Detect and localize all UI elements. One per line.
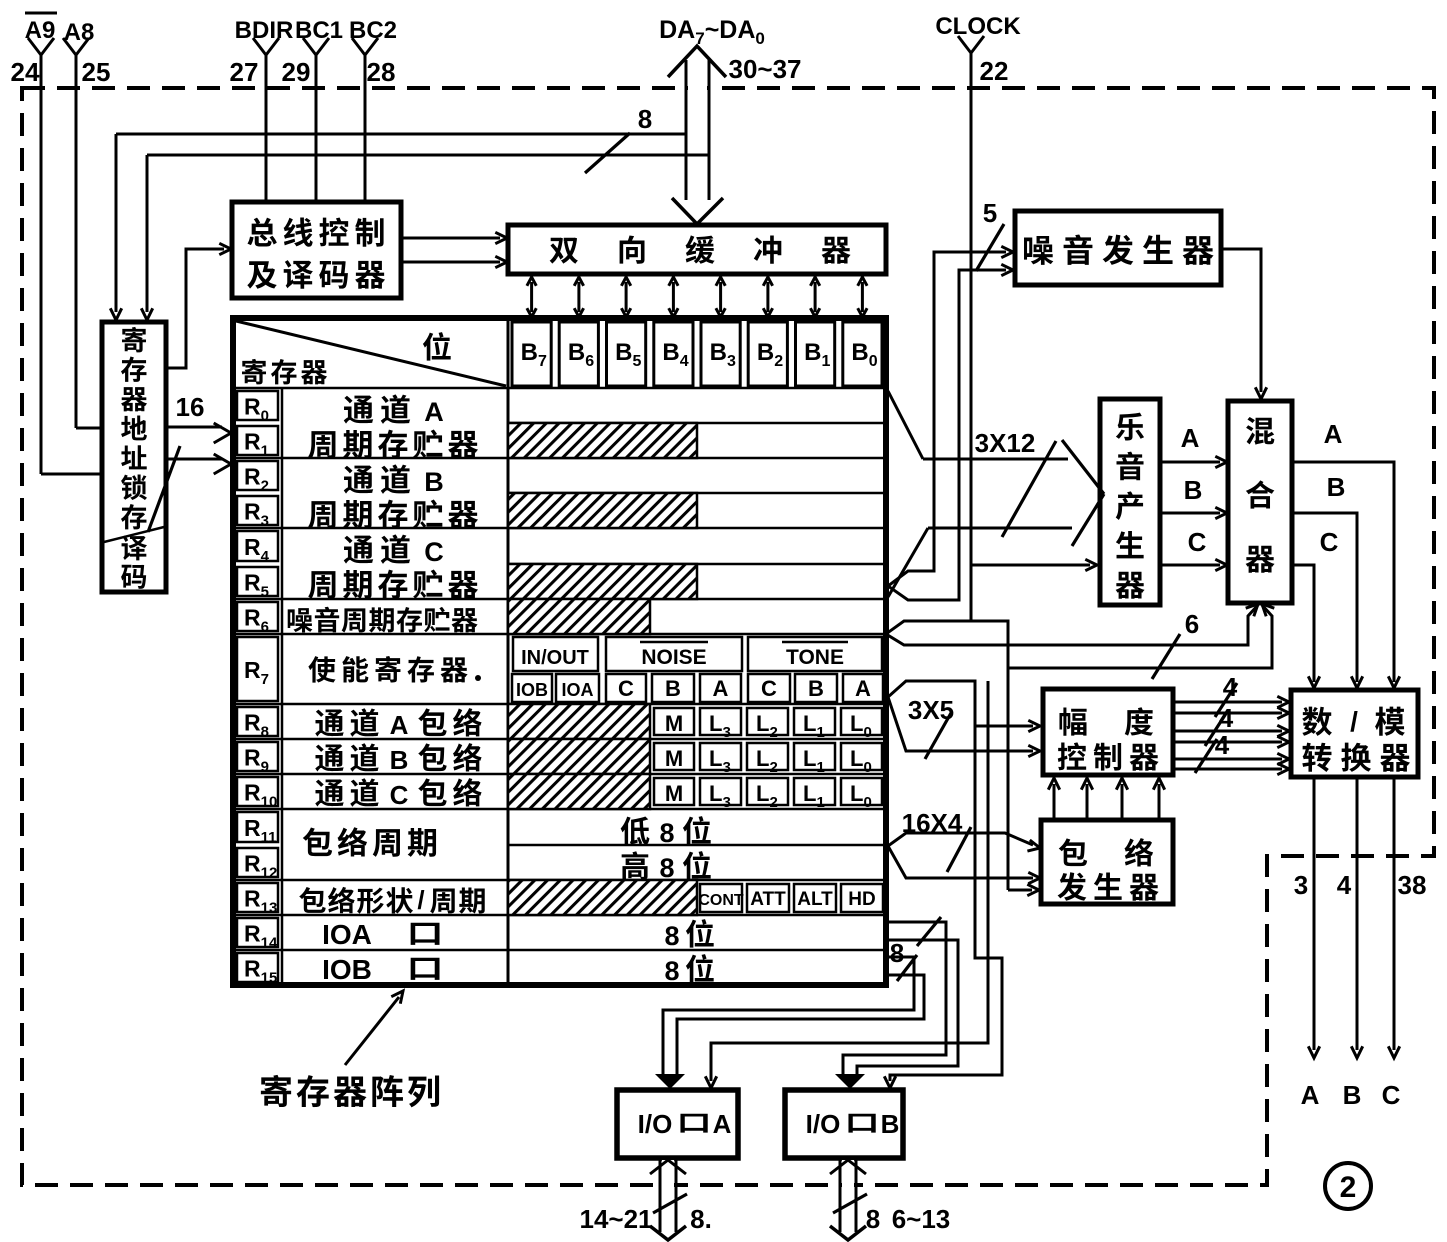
svg-text:25: 25: [82, 57, 111, 87]
svg-text:NOISE: NOISE: [641, 646, 706, 669]
svg-text:C: C: [1382, 1080, 1401, 1110]
R7 sub-cells bottom row IOB IOA C B A C B A: [512, 674, 883, 702]
bus width slash 16 on latch-to-table bus: [148, 392, 204, 532]
block U-buscontrol: bus control and decoder (total line control): [232, 202, 401, 298]
block U-envgen: envelope generator: [1041, 820, 1173, 904]
register description R15: IOB port: [322, 954, 439, 985]
pin bus I/O A (pins 14~21) hollow bidirectional arrow: [579, 1158, 711, 1240]
register description R9: channel B envelope: [315, 743, 481, 775]
svg-text:IN/OUT: IN/OUT: [521, 647, 589, 669]
pin BDIR (pin 27): [230, 17, 294, 204]
svg-text:B: B: [1343, 1080, 1362, 1110]
svg-text:ALT: ALT: [797, 889, 833, 910]
bus width slash 3X12: [975, 428, 1056, 537]
svg-text:M: M: [665, 781, 683, 806]
svg-text:8: 8: [638, 104, 652, 134]
bus R14 IOA register to I/O port B (8 bits): [835, 922, 958, 1089]
svg-text:16X4: 16X4: [902, 808, 963, 838]
vertical divider description/bits: [507, 318, 510, 985]
block U-latch: register address latch / decoder (vertical): [102, 322, 166, 592]
R7 sub-cells IN/OUT, NOISE(overline), TONE(overline) headers: [513, 637, 882, 671]
svg-text:A: A: [390, 710, 409, 740]
header label: register (ji cun qi): [242, 359, 266, 385]
wire clock/enable down to envelope generator: [1008, 668, 1039, 896]
svg-text:14~21: 14~21: [579, 1204, 652, 1234]
callout: register array label with arrow: [261, 991, 439, 1107]
svg-text:BC1: BC1: [295, 17, 343, 44]
svg-text:C: C: [424, 537, 444, 567]
bus 3X12 tone periods to tone generator (big funnel arrow): [888, 391, 1104, 597]
bus R15 IOB register to I/O port A (8 bits): [655, 957, 924, 1089]
wire CLOCK net: down, branch to tone generator, jog to envelope generator: [971, 53, 1097, 621]
R15 cell: 8 bits: [664, 954, 713, 986]
register description R6: noise period register: [288, 608, 313, 632]
block U-ioa: I/O port A: [617, 1090, 738, 1158]
bus width slash 8 on DA data lines: [585, 104, 652, 173]
bus width slash 5: [976, 198, 1004, 271]
wire mixer output C to DAC: [1292, 527, 1339, 688]
svg-text:8: 8: [659, 818, 674, 848]
svg-text:IOA: IOA: [322, 919, 372, 950]
svg-text:C: C: [618, 676, 634, 701]
svg-text:8: 8: [664, 921, 679, 951]
svg-text:A: A: [713, 676, 729, 701]
bus R8-R10 amplitudes to amplitude controller (3X5): [888, 681, 1040, 757]
hatched unused fields R1,R3,R5,R6,R8,R9,R10,R13: [508, 423, 697, 915]
pin CLOCK (pin 22): [935, 13, 1021, 86]
svg-text:IOB: IOB: [516, 680, 548, 700]
wire noise generator to mixer top: [1221, 249, 1267, 399]
svg-text:B: B: [881, 1109, 900, 1139]
bus 8 double-headed arrows buffer to register array bits: [527, 277, 867, 317]
wire DAC output A to pin 3: [1294, 777, 1320, 1110]
block U-tone: tone generator (vertical): [1100, 399, 1160, 605]
svg-text:2: 2: [1340, 1171, 1357, 1204]
register description R14: IOA port: [322, 919, 439, 950]
bus width slash (R15): [897, 955, 917, 981]
R8/R9/R10 amplitude cells M L3 L2 L1 L0: [654, 708, 882, 811]
svg-text:B: B: [808, 676, 824, 701]
horizontal grid lines full width: [235, 388, 884, 950]
register descriptions: channel A period register (R0/R1): [308, 394, 478, 459]
svg-text:8: 8: [664, 956, 679, 986]
block U-noise: noise generator: [1015, 211, 1221, 285]
bus amplitude controller to DAC lane 2 (4 bits): [1173, 703, 1289, 748]
svg-text:28: 28: [367, 57, 396, 87]
svg-text:4: 4: [1219, 703, 1234, 733]
wire DAC output B to pin 4: [1337, 777, 1363, 1110]
svg-text:22: 22: [980, 56, 1009, 86]
svg-text:A: A: [855, 676, 871, 701]
svg-text:M: M: [665, 746, 683, 771]
wire mixer output B to DAC: [1292, 472, 1363, 688]
register descriptions: channel C period register (R4/R5): [308, 534, 478, 599]
svg-text:M: M: [665, 711, 683, 736]
register description R13: envelope shape/period: [299, 885, 485, 915]
svg-text:ATT: ATT: [750, 889, 786, 910]
wires envelope generator to amplitude controller (4 arrows): [1048, 778, 1164, 818]
figure number 2 (circled): [1325, 1163, 1371, 1209]
wire tone B to mixer: [1160, 475, 1227, 519]
svg-text:CLOCK: CLOCK: [935, 13, 1021, 40]
wire enable IOB down to I/O port B: [884, 681, 1002, 1088]
svg-text:16: 16: [176, 392, 205, 422]
svg-text:6~13: 6~13: [892, 1204, 951, 1234]
wire tone C to mixer: [1160, 527, 1227, 571]
register description R11/R12: envelope period: [303, 827, 332, 856]
svg-text:B: B: [665, 676, 681, 701]
svg-text:A: A: [1301, 1080, 1320, 1110]
wire bus-control to buffer (upper arrow): [401, 232, 507, 243]
bus amplitude controller to DAC lane 1 (4 bits): [1173, 672, 1289, 719]
bit header cells B7..B0: [512, 322, 882, 386]
register description R7: enable register: [308, 656, 481, 683]
svg-text:4: 4: [1223, 672, 1238, 702]
block U-iob: I/O port B: [785, 1090, 903, 1158]
svg-text:A8: A8: [64, 19, 95, 46]
R14 cell: 8 bits: [664, 919, 713, 951]
pin bus I/O B (pins 6~13) hollow bidirectional arrow: [830, 1158, 950, 1240]
R12 cell: high 8 bits: [622, 851, 711, 883]
register array header diagonal divider: [236, 321, 506, 386]
svg-text:/: /: [1350, 706, 1358, 737]
svg-text:DA7~DA0: DA7~DA0: [659, 16, 765, 48]
svg-text:4: 4: [1337, 870, 1352, 900]
wire tone A to mixer: [1160, 423, 1227, 468]
register description R8: channel A envelope: [315, 708, 481, 740]
svg-text:TONE: TONE: [786, 646, 844, 669]
svg-text:C: C: [1188, 527, 1207, 557]
svg-text:BDIR: BDIR: [235, 17, 294, 44]
svg-text:B: B: [390, 745, 409, 775]
svg-text:3X5: 3X5: [908, 695, 954, 725]
svg-text:30~37: 30~37: [728, 54, 801, 84]
pin BC1 (pin 29): [282, 17, 343, 204]
pin BC2 (pin 28): [349, 17, 397, 204]
bus amplitude controller to DAC lane 3 (4 bits): [1173, 730, 1289, 775]
wire latch to bus-control with arrow: [166, 243, 231, 368]
svg-text:29: 29: [282, 57, 311, 87]
wire enable IOA down to I/O port A: [705, 681, 988, 1088]
svg-text:C: C: [1320, 527, 1339, 557]
svg-text:IOA: IOA: [561, 680, 593, 700]
register descriptions: channel B period register (R2/R3): [308, 464, 478, 529]
pin A9-bar (pin 24): [11, 13, 102, 474]
svg-text:38: 38: [1398, 870, 1427, 900]
svg-text:8.: 8.: [690, 1204, 712, 1234]
bus R7 enables to mixer bottom (6 lines): [886, 604, 1274, 668]
wire latch to table R1 with big arrow: [166, 454, 231, 474]
svg-text:8: 8: [866, 1204, 880, 1234]
svg-text:A: A: [1181, 423, 1200, 453]
bus width slash 3X5: [908, 695, 954, 759]
block U-ampctl: amplitude controller: [1043, 689, 1173, 775]
svg-text:C: C: [761, 676, 777, 701]
wire mixer output A to DAC: [1292, 419, 1400, 688]
wire bus-control to buffer (lower arrow): [401, 256, 507, 267]
R11 cell: low 8 bits: [621, 816, 711, 848]
wire data line DA to latch (upper): [110, 134, 686, 320]
svg-text:27: 27: [230, 57, 259, 87]
wire DAC output C to pin 38: [1382, 777, 1427, 1110]
block U-dac: D/A converter: [1291, 690, 1418, 777]
register description R10: channel C envelope: [315, 778, 481, 810]
svg-text:B: B: [1327, 472, 1346, 502]
svg-text:4: 4: [1215, 730, 1230, 760]
pin A8 (pin 25): [63, 19, 110, 428]
svg-text:A: A: [424, 397, 444, 427]
svg-text:I/O: I/O: [638, 1109, 673, 1139]
bus width slash 16X4: [902, 808, 971, 872]
svg-text:24: 24: [11, 57, 40, 87]
bus width slash 6: [1152, 609, 1199, 679]
pin bus DA7~DA0 (pins 30~37) bidirectional hollow arrow into buffer: [659, 16, 801, 224]
svg-text:A: A: [1324, 419, 1343, 449]
svg-text:3: 3: [1294, 870, 1308, 900]
svg-text:IOB: IOB: [322, 954, 372, 985]
horizontal grid lines bit-area only: [508, 423, 884, 845]
bus R6 noise period to noise generator (5 bits): [888, 246, 1013, 600]
svg-text:I/O: I/O: [806, 1109, 841, 1139]
svg-text:5: 5: [983, 198, 997, 228]
block register array outer frame: [233, 318, 886, 985]
bus width slash 8 (R14): [890, 917, 941, 968]
svg-text:6: 6: [1185, 609, 1199, 639]
svg-text:HD: HD: [848, 889, 875, 910]
svg-text:8: 8: [890, 938, 904, 968]
svg-text:A: A: [713, 1109, 732, 1139]
svg-text:8: 8: [659, 853, 674, 883]
vertical divider R-label column: [281, 388, 284, 985]
svg-text:B: B: [1184, 475, 1203, 505]
svg-text:3X12: 3X12: [975, 428, 1036, 458]
svg-text:CONT: CONT: [698, 892, 744, 909]
svg-text:C: C: [390, 780, 409, 810]
svg-text:B: B: [424, 467, 444, 497]
header label: bit (wei): [423, 332, 451, 361]
R13 cells CONT ATT ALT HD: [698, 884, 883, 912]
wire data line DA to latch (lower): [141, 155, 709, 320]
register row labels R0..R15: [237, 391, 278, 987]
svg-text:BC2: BC2: [349, 17, 397, 44]
bus R11/R12 envelope period to envelope generator (16X4): [888, 833, 1040, 884]
block U-mixer: mixer (vertical): [1228, 401, 1292, 603]
block U-buffer: bidirectional buffer (shuang xiang huan chong qi): [508, 225, 886, 274]
svg-text:/: /: [417, 885, 424, 915]
wire latch to table R0 with big arrow: [166, 423, 231, 443]
